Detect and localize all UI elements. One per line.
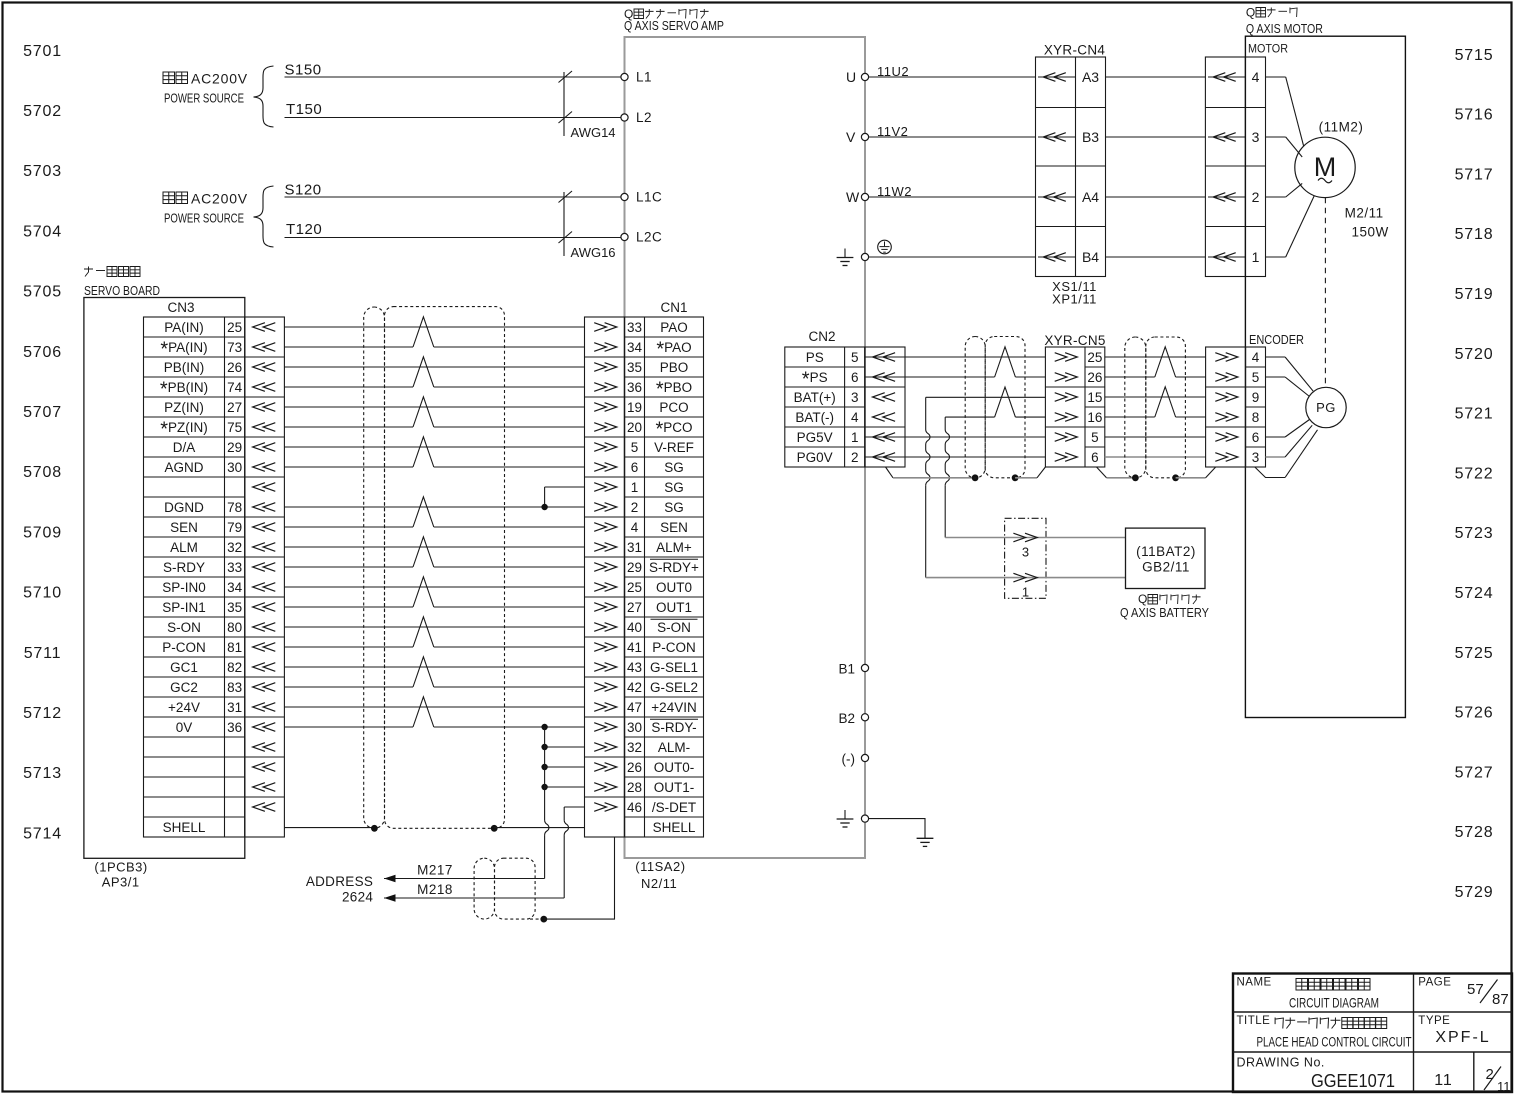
cable size mark AWG16 bbox=[563, 192, 565, 256]
svg-text:U: U bbox=[846, 69, 856, 85]
wire ground to earth bbox=[869, 819, 925, 839]
wire +24V CN3-31 to CN1-47 bbox=[284, 706, 584, 708]
svg-text:A4: A4 bbox=[1082, 189, 1099, 205]
svg-text:(11BAT2): (11BAT2) bbox=[1136, 544, 1196, 559]
svg-text:B4: B4 bbox=[1082, 249, 1099, 265]
svg-text:XPF-L: XPF-L bbox=[1435, 1029, 1490, 1046]
svg-text:SG: SG bbox=[664, 460, 684, 475]
svg-text:T150: T150 bbox=[286, 101, 322, 118]
svg-text:DRAWING No.: DRAWING No. bbox=[1237, 1056, 1325, 1070]
svg-text:78: 78 bbox=[227, 500, 242, 515]
CN2 arrow column bbox=[865, 347, 905, 467]
svg-text:31: 31 bbox=[227, 700, 242, 715]
svg-text:46: 46 bbox=[627, 800, 642, 815]
shield rounded box M217/M218 bbox=[495, 858, 536, 919]
XYR-CN5 pin 16 bbox=[1055, 413, 1067, 422]
svg-text:5725: 5725 bbox=[1455, 645, 1494, 662]
svg-text:5: 5 bbox=[851, 350, 859, 365]
svg-text:S-ON: S-ON bbox=[167, 620, 201, 635]
svg-text:5705: 5705 bbox=[23, 284, 62, 301]
motor connector bbox=[1205, 57, 1265, 277]
svg-text:5708: 5708 bbox=[23, 464, 62, 481]
wire D/A CN3-29 to CN1-5 bbox=[284, 446, 584, 448]
CN1 arrow column bbox=[585, 317, 625, 837]
svg-text:5721: 5721 bbox=[1455, 406, 1494, 423]
svg-text:2: 2 bbox=[631, 500, 639, 515]
svg-text:S-ON: S-ON bbox=[657, 620, 691, 635]
svg-text:S120: S120 bbox=[285, 182, 322, 199]
CN1 output arrow row 1 bbox=[594, 323, 606, 332]
svg-text:30: 30 bbox=[227, 460, 242, 475]
svg-text:T120: T120 bbox=[286, 221, 322, 238]
CN3 input arrow row 21 bbox=[253, 723, 265, 732]
svg-text:5716: 5716 bbox=[1455, 107, 1494, 124]
terminal L2C bbox=[621, 233, 628, 240]
CN1 output arrow row 7 bbox=[594, 443, 606, 452]
encoder pin 9 bbox=[1215, 393, 1227, 402]
CN3 input arrow row 23 bbox=[253, 763, 265, 772]
CN3 input arrow row 19 bbox=[253, 683, 265, 692]
CN3 input arrow row 24 bbox=[253, 783, 265, 792]
svg-text:26: 26 bbox=[227, 360, 242, 375]
svg-text:3: 3 bbox=[1022, 545, 1029, 560]
encoder pin 5 bbox=[1215, 373, 1227, 382]
svg-text:33: 33 bbox=[227, 560, 242, 575]
CN2 arrow row 4 bbox=[873, 413, 885, 422]
battery net vertical from CN5-15 wire bbox=[925, 397, 927, 429]
svg-text:XP1/11: XP1/11 bbox=[1052, 292, 1097, 307]
wire *PA(IN) CN3-73 to CN1-34 bbox=[284, 346, 413, 348]
svg-text:33: 33 bbox=[627, 320, 642, 335]
svg-text:81: 81 bbox=[227, 640, 242, 655]
svg-text:AWG14: AWG14 bbox=[571, 125, 616, 140]
svg-text:35: 35 bbox=[627, 360, 642, 375]
CN4 arrow and pin B3 bbox=[1038, 136, 1076, 138]
svg-text:TITLE: TITLE bbox=[1237, 1015, 1271, 1027]
svg-text:5717: 5717 bbox=[1455, 166, 1494, 183]
svg-text:83: 83 bbox=[227, 680, 242, 695]
XYR-CN5 pin 15 bbox=[1055, 393, 1067, 402]
svg-text:TYPE: TYPE bbox=[1418, 1015, 1450, 1027]
svg-text:AC200V: AC200V bbox=[191, 71, 248, 87]
CN2 arrow row 1 bbox=[873, 353, 885, 362]
CN3 input arrow row 5 bbox=[253, 403, 265, 412]
motor connector pin 2 bbox=[1208, 196, 1245, 198]
CN3 input arrow row 4 bbox=[253, 383, 265, 392]
CN2 arrow row 6 bbox=[873, 453, 885, 462]
svg-text:L2C: L2C bbox=[636, 230, 662, 245]
svg-text:ALM-: ALM- bbox=[658, 740, 690, 755]
CN2 arrow row 2 bbox=[873, 373, 885, 382]
svg-text:PAO: PAO bbox=[660, 320, 688, 335]
wire BAT net to CN5-16 with twisted pair bbox=[945, 416, 994, 418]
terminal L1 bbox=[621, 73, 628, 80]
CN3 input arrow row 6 bbox=[253, 423, 265, 432]
svg-text:S-RDY: S-RDY bbox=[163, 560, 205, 575]
svg-text:5727: 5727 bbox=[1455, 764, 1494, 781]
svg-text:42: 42 bbox=[627, 680, 642, 695]
wires motor connector to motor M bbox=[1266, 76, 1286, 78]
svg-text:SG: SG bbox=[664, 480, 684, 495]
svg-text:5706: 5706 bbox=[23, 344, 62, 361]
CN1 output arrow row 4 bbox=[594, 383, 606, 392]
CN3 input arrow row 20 bbox=[253, 703, 265, 712]
svg-text:(1PCB3): (1PCB3) bbox=[94, 860, 147, 875]
wire ALM CN3-32 to CN1-31 bbox=[284, 546, 584, 548]
svg-text:40: 40 bbox=[627, 620, 642, 635]
CN3 input arrow row 3 bbox=[253, 363, 265, 372]
svg-text:OUT1: OUT1 bbox=[656, 600, 692, 615]
svg-text:36: 36 bbox=[227, 720, 242, 735]
svg-text:(11M2): (11M2) bbox=[1319, 120, 1364, 135]
svg-text:5709: 5709 bbox=[23, 524, 62, 541]
svg-text:P-CON: P-CON bbox=[162, 640, 206, 655]
svg-text:16: 16 bbox=[1087, 410, 1102, 425]
svg-text:PZ(IN): PZ(IN) bbox=[164, 400, 204, 415]
svg-text:6: 6 bbox=[1091, 450, 1099, 465]
cable size mark AWG14 bbox=[563, 72, 565, 136]
svg-text:Q AXIS SERVO AMP: Q AXIS SERVO AMP bbox=[624, 19, 724, 33]
wire S-RDY CN3-33 to CN1-29 bbox=[284, 566, 413, 568]
svg-text:4: 4 bbox=[631, 520, 639, 535]
wire GC1 CN3-82 to CN1-43 bbox=[284, 666, 584, 668]
wire battery pin 3 bbox=[945, 537, 1125, 539]
wire 0V CN3-36 to CN1-30 bbox=[284, 726, 413, 728]
wire M217 bbox=[384, 878, 545, 880]
svg-text:M: M bbox=[1314, 152, 1337, 182]
svg-text:5720: 5720 bbox=[1455, 346, 1494, 363]
svg-text:11W2: 11W2 bbox=[877, 184, 912, 199]
svg-text:1: 1 bbox=[1022, 585, 1029, 600]
shield capsule CN2 side bbox=[965, 337, 985, 479]
wire AGND CN3-30 to CN1-6 bbox=[284, 466, 413, 468]
CN3 input arrow row 17 bbox=[253, 643, 265, 652]
svg-text:GGEE1071: GGEE1071 bbox=[1311, 1071, 1395, 1091]
shield rounded box CN2-CN5 bbox=[985, 337, 1025, 478]
svg-text:AGND: AGND bbox=[164, 460, 203, 475]
svg-text:27: 27 bbox=[227, 400, 242, 415]
shield wire to CN5 bbox=[1015, 477, 1037, 479]
svg-text:32: 32 bbox=[227, 540, 242, 555]
svg-text:29: 29 bbox=[627, 560, 642, 575]
svg-text:S-RDY+: S-RDY+ bbox=[649, 560, 699, 575]
svg-text:36: 36 bbox=[627, 380, 642, 395]
wire E phase CN4 to motor connector bbox=[1106, 256, 1206, 258]
wire PG0V to CN5-6 bbox=[865, 456, 1046, 458]
XYR-CN5 pin 26 bbox=[1055, 373, 1067, 382]
svg-text:V-REF: V-REF bbox=[654, 440, 694, 455]
svg-text:5729: 5729 bbox=[1455, 884, 1494, 901]
wire W 11W2 bbox=[869, 196, 1036, 198]
svg-text:(-): (-) bbox=[842, 752, 856, 767]
power source label AC200V group 2 bbox=[163, 192, 175, 204]
CN1 output arrow row 5 bbox=[594, 403, 606, 412]
svg-text:5724: 5724 bbox=[1455, 585, 1494, 602]
svg-text:ADDRESS: ADDRESS bbox=[306, 874, 373, 889]
wire E ground to CN4 bbox=[869, 256, 1036, 258]
svg-text:AWG16: AWG16 bbox=[571, 245, 616, 260]
svg-text:SHELL: SHELL bbox=[653, 820, 696, 835]
svg-text:30: 30 bbox=[627, 720, 642, 735]
svg-text:S150: S150 bbox=[285, 62, 322, 79]
wire GC2 CN3-83 to CN1-42 bbox=[284, 686, 413, 688]
wire U phase CN4 to motor connector bbox=[1106, 76, 1206, 78]
svg-text:2: 2 bbox=[1486, 1066, 1494, 1083]
svg-text:2624: 2624 bbox=[342, 890, 373, 905]
svg-text:5715: 5715 bbox=[1455, 47, 1494, 64]
wire U 11U2 bbox=[869, 76, 1036, 78]
svg-text:5703: 5703 bbox=[23, 163, 62, 180]
svg-text:5712: 5712 bbox=[23, 705, 62, 722]
terminal B1 bbox=[861, 664, 868, 671]
svg-text:G-SEL2: G-SEL2 bbox=[650, 680, 698, 695]
XYR-CN5 pin 6 bbox=[1055, 453, 1067, 462]
svg-text:19: 19 bbox=[627, 400, 642, 415]
CN1 output arrow row 16 bbox=[594, 623, 606, 632]
motor connector pin 3 bbox=[1208, 136, 1245, 138]
CN3 input arrow row 1 bbox=[253, 323, 265, 332]
terminal W bbox=[861, 193, 868, 200]
encoder pin 8 bbox=[1215, 413, 1227, 422]
CN3 input arrow row 8 bbox=[253, 463, 265, 472]
shield wire to encoder bbox=[1176, 477, 1206, 479]
wire V 11V2 bbox=[869, 136, 1036, 138]
CN1 output arrow row 22 bbox=[594, 743, 606, 752]
CN1 output arrow row 8 bbox=[594, 463, 606, 472]
svg-text:5723: 5723 bbox=[1455, 525, 1494, 542]
CN1 output arrow row 20 bbox=[594, 703, 606, 712]
wire P-CON CN3-81 to CN1-41 bbox=[284, 646, 413, 648]
PE protective earth symbol bbox=[878, 240, 892, 254]
svg-text:Q AXIS BATTERY: Q AXIS BATTERY bbox=[1120, 606, 1210, 620]
CN2 shield wire to shield drain bbox=[886, 467, 894, 478]
CN3 arrow column bbox=[245, 317, 285, 837]
svg-text:L2: L2 bbox=[636, 110, 652, 125]
svg-text:B3: B3 bbox=[1082, 129, 1099, 145]
CN1 output arrow row 3 bbox=[594, 363, 606, 372]
earth symbol left of bottom ground terminal bbox=[844, 810, 846, 819]
shield capsule CN5-encoder bbox=[1125, 337, 1146, 478]
earth symbol bottom bbox=[917, 837, 934, 839]
svg-text:PLACE HEAD CONTROL CIRCUIT: PLACE HEAD CONTROL CIRCUIT bbox=[1257, 1035, 1412, 1050]
svg-text:25: 25 bbox=[227, 320, 242, 335]
wire PZ(IN) CN3-27 to CN1-19 bbox=[284, 406, 584, 408]
svg-text:6: 6 bbox=[631, 460, 639, 475]
svg-text:+24V: +24V bbox=[168, 700, 200, 715]
shield dot E bbox=[371, 825, 378, 832]
svg-text:PG0V: PG0V bbox=[797, 450, 833, 465]
svg-text:CN3: CN3 bbox=[167, 300, 194, 315]
svg-text:OUT0-: OUT0- bbox=[654, 760, 695, 775]
svg-text:5710: 5710 bbox=[23, 585, 62, 602]
shield rounded box CN5-encoder bbox=[1146, 337, 1186, 478]
wires encoder to PG bbox=[1266, 356, 1286, 358]
encoder pin 3 bbox=[1215, 453, 1227, 462]
wire SP-IN0 CN3-34 to CN1-25 bbox=[284, 586, 584, 588]
shield drain dot C bbox=[1132, 474, 1139, 481]
svg-text:4: 4 bbox=[1252, 69, 1260, 85]
SHELL wire CN3 to shield dot bbox=[284, 827, 374, 829]
shield drain dot B bbox=[1012, 474, 1019, 481]
svg-text:SERVO BOARD: SERVO BOARD bbox=[84, 284, 160, 298]
svg-text:ENCODER: ENCODER bbox=[1249, 333, 1304, 347]
terminal (-) bbox=[861, 754, 868, 761]
svg-text:80: 80 bbox=[227, 620, 242, 635]
svg-text:PA(IN): PA(IN) bbox=[164, 320, 204, 335]
svg-text:PAGE: PAGE bbox=[1418, 977, 1451, 989]
svg-text:SEN: SEN bbox=[170, 520, 198, 535]
CN3 input arrow row 13 bbox=[253, 563, 265, 572]
wire battery pin 1 bbox=[926, 577, 1126, 579]
wire PS to CN5-25 bbox=[865, 356, 1046, 358]
svg-text:5701: 5701 bbox=[23, 43, 62, 60]
shield rounded box CN3-CN1 bbox=[385, 307, 505, 829]
wire *PB(IN) CN3-74 to CN1-36 bbox=[284, 386, 413, 388]
svg-text:5726: 5726 bbox=[1455, 705, 1494, 722]
motor connector pin 1 bbox=[1208, 256, 1245, 258]
svg-text:AP3/1: AP3/1 bbox=[102, 875, 140, 890]
svg-text:73: 73 bbox=[227, 340, 242, 355]
encoder pin 6 bbox=[1215, 433, 1227, 442]
svg-text:4: 4 bbox=[851, 410, 859, 425]
svg-text:2: 2 bbox=[851, 450, 859, 465]
svg-text:SG: SG bbox=[664, 500, 684, 515]
svg-text:XYR-CN5: XYR-CN5 bbox=[1044, 333, 1105, 348]
svg-text:0V: 0V bbox=[176, 720, 193, 735]
CN3 input arrow row 25 bbox=[253, 803, 265, 812]
CN1 output arrow row 17 bbox=[594, 643, 606, 652]
shield capsule M217/M218 bbox=[474, 858, 494, 919]
CN1 output arrow row 13 bbox=[594, 563, 606, 572]
svg-text:34: 34 bbox=[227, 580, 243, 595]
brace bbox=[254, 66, 274, 127]
CN3 input arrow row 7 bbox=[253, 443, 265, 452]
wire BAT net to CN5-15 bbox=[926, 396, 1046, 398]
svg-text:M218: M218 bbox=[417, 882, 453, 897]
svg-text:1: 1 bbox=[631, 480, 639, 495]
svg-text:11U2: 11U2 bbox=[877, 64, 909, 79]
svg-text:29: 29 bbox=[227, 440, 242, 455]
XYR-CN5 pin 5 bbox=[1055, 433, 1067, 442]
CN1 output arrow row 14 bbox=[594, 583, 606, 592]
svg-text:SEN: SEN bbox=[660, 520, 688, 535]
svg-text:34: 34 bbox=[627, 340, 643, 355]
CN4 arrow and pin A4 bbox=[1038, 196, 1076, 198]
CN3 table bbox=[144, 317, 245, 837]
junction dot SG bbox=[541, 504, 547, 510]
svg-text:43: 43 bbox=[627, 660, 642, 675]
brace bbox=[254, 186, 274, 247]
svg-text:1: 1 bbox=[1252, 249, 1260, 265]
svg-text:26: 26 bbox=[1087, 370, 1102, 385]
svg-text:POWER SOURCE: POWER SOURCE bbox=[164, 91, 244, 106]
svg-text:BAT(+): BAT(+) bbox=[794, 390, 836, 405]
svg-text:L1C: L1C bbox=[636, 190, 662, 205]
svg-text:NAME: NAME bbox=[1237, 977, 1272, 989]
svg-text:V: V bbox=[846, 129, 856, 145]
CN3 input arrow row 12 bbox=[253, 543, 265, 552]
svg-text:3: 3 bbox=[1252, 450, 1260, 465]
svg-text:5711: 5711 bbox=[24, 645, 62, 662]
svg-text:PG: PG bbox=[1316, 400, 1336, 415]
svg-text:5714: 5714 bbox=[23, 825, 62, 842]
svg-text:3: 3 bbox=[1252, 129, 1260, 145]
svg-text:15: 15 bbox=[1087, 390, 1102, 405]
XYR-CN5 pin 25 bbox=[1055, 353, 1067, 362]
wire PB(IN) CN3-26 to CN1-35 bbox=[284, 366, 584, 368]
svg-text:Q: Q bbox=[1138, 592, 1147, 606]
svg-text:N2/11: N2/11 bbox=[641, 876, 677, 891]
svg-text:5713: 5713 bbox=[23, 765, 62, 782]
wire *PS to CN5-26 with twisted pair bbox=[865, 376, 995, 378]
servo board box bbox=[84, 298, 245, 859]
svg-text:XYR-CN4: XYR-CN4 bbox=[1044, 43, 1106, 58]
svg-text:POWER SOURCE: POWER SOURCE bbox=[164, 211, 244, 226]
svg-text:SP-IN0: SP-IN0 bbox=[162, 580, 206, 595]
svg-text:5: 5 bbox=[631, 440, 639, 455]
svg-text:6: 6 bbox=[851, 370, 859, 385]
dashed link motor to PG bbox=[1324, 198, 1326, 386]
CN1 output arrow row 24 bbox=[594, 783, 606, 792]
bottom ground terminal bbox=[861, 815, 868, 822]
wire PA(IN) CN3-25 to CN1-33 bbox=[284, 326, 584, 328]
svg-text:82: 82 bbox=[227, 660, 242, 675]
CN3 input arrow row 22 bbox=[253, 743, 265, 752]
svg-text:SHELL: SHELL bbox=[163, 820, 206, 835]
wire V phase CN4 to motor connector bbox=[1106, 136, 1206, 138]
svg-text:57: 57 bbox=[1467, 981, 1484, 998]
SG pin1 jumper wire bbox=[545, 486, 585, 488]
encoder pin 4 bbox=[1215, 353, 1227, 362]
CN1 output arrow row 11 bbox=[594, 523, 606, 532]
svg-text:3: 3 bbox=[851, 390, 859, 405]
svg-text:150W: 150W bbox=[1352, 225, 1389, 240]
svg-text:35: 35 bbox=[227, 600, 242, 615]
svg-text:GC1: GC1 bbox=[170, 660, 198, 675]
svg-text:25: 25 bbox=[627, 580, 642, 595]
svg-text:B1: B1 bbox=[838, 662, 855, 677]
wire PG5V to CN5-5 bbox=[865, 436, 1046, 438]
svg-text:S-RDY-: S-RDY- bbox=[651, 720, 696, 735]
svg-text:5704: 5704 bbox=[23, 223, 62, 240]
svg-text:41: 41 bbox=[627, 640, 642, 655]
svg-text:BAT(-): BAT(-) bbox=[795, 410, 834, 425]
svg-text:ALM: ALM bbox=[170, 540, 198, 555]
svg-text:32: 32 bbox=[627, 740, 642, 755]
svg-text:ALM+: ALM+ bbox=[656, 540, 692, 555]
svg-text:87: 87 bbox=[1492, 991, 1509, 1008]
PG circle bbox=[1306, 387, 1346, 427]
CN1 output arrow row 15 bbox=[594, 603, 606, 612]
CN4 arrow and pin A3 bbox=[1038, 76, 1076, 78]
battery net vertical from CN5-16 wire bbox=[944, 417, 946, 429]
svg-text:25: 25 bbox=[1087, 350, 1102, 365]
svg-text:+24VIN: +24VIN bbox=[651, 700, 696, 715]
svg-text:/S-DET: /S-DET bbox=[652, 800, 696, 815]
terminal L2 bbox=[621, 114, 628, 121]
svg-text:6: 6 bbox=[1252, 430, 1260, 445]
svg-text:11V2: 11V2 bbox=[877, 124, 908, 139]
svg-text:2: 2 bbox=[1252, 189, 1260, 205]
svg-text:20: 20 bbox=[627, 420, 642, 435]
svg-text:W: W bbox=[846, 189, 860, 205]
svg-text:4: 4 bbox=[1252, 350, 1260, 365]
svg-text:28: 28 bbox=[627, 780, 642, 795]
wires CN5 to encoder bbox=[1105, 356, 1206, 358]
svg-text:9: 9 bbox=[1252, 390, 1260, 405]
svg-text:PG5V: PG5V bbox=[797, 430, 833, 445]
svg-text:11: 11 bbox=[1497, 1079, 1511, 1094]
